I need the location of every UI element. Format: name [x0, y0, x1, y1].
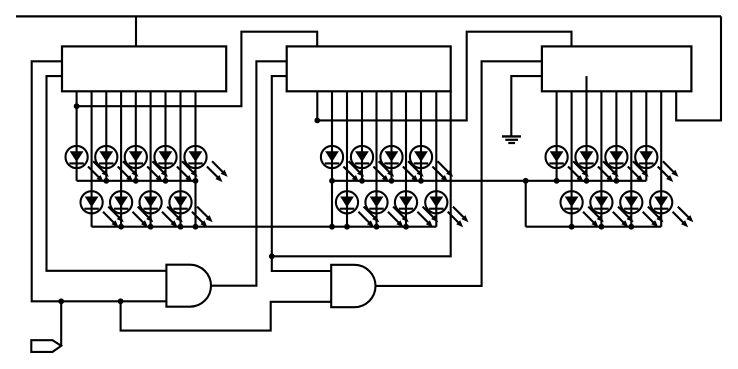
- junction: [163, 178, 169, 184]
- wire U3 pin 2: [571, 91, 573, 226]
- LED D9: [169, 191, 212, 227]
- junction: [193, 178, 199, 184]
- wire cathode rail row2 group3: [526, 226, 662, 228]
- connector tag J1: [31, 340, 61, 352]
- LED D18: [546, 146, 589, 182]
- wire U3 pin 4: [600, 91, 602, 226]
- AND gate U4: [166, 265, 211, 307]
- wire shared input to AND2: [121, 301, 332, 330]
- LED D7: [110, 191, 153, 227]
- wire U1 input B net: [47, 76, 167, 271]
- LED D8: [140, 191, 183, 227]
- LED D21: [635, 146, 678, 182]
- wire U1 pin 6: [150, 91, 152, 226]
- junction: [329, 178, 335, 184]
- junction: [554, 178, 560, 184]
- wire U1 input A net: [32, 61, 167, 301]
- junction: [628, 224, 634, 230]
- wire U1 pin 7: [164, 91, 166, 181]
- wire U2 pin 7: [405, 91, 407, 226]
- junction: [569, 224, 575, 230]
- wire U2 input B net: [272, 76, 331, 271]
- wire U2 pin 1: [316, 91, 318, 120]
- junction: [523, 178, 529, 184]
- junction tag node: [58, 298, 64, 304]
- ground: [502, 136, 521, 143]
- LED D2: [95, 146, 138, 182]
- wire U2 right corner branch: [272, 91, 451, 256]
- power rail top: [16, 15, 721, 17]
- wire cascade U1 to U2: [77, 32, 318, 107]
- junction: [329, 224, 335, 230]
- junction: [374, 224, 380, 230]
- wire VCC to U1 top: [135, 16, 137, 46]
- IC U1: [62, 46, 226, 91]
- AND gate U5: [331, 265, 375, 307]
- LED D15: [365, 191, 408, 227]
- LED D16: [395, 191, 438, 227]
- wire U1 pin 2: [91, 91, 93, 226]
- IC U3: [542, 46, 692, 91]
- wire U2 pin 5: [375, 91, 377, 226]
- wire cascade U2 to U3: [317, 32, 571, 121]
- wire AND2 out to U3 input A: [376, 61, 542, 286]
- junction: [118, 224, 124, 230]
- junction: [344, 224, 350, 230]
- junction: [103, 178, 109, 184]
- wire rail tie 2: [331, 181, 333, 227]
- wire U2 pin 4: [361, 91, 363, 181]
- wire U3 pin 7: [645, 91, 647, 181]
- LED D13: [410, 146, 453, 182]
- junction U1 QH out: [74, 103, 80, 109]
- IC U2: [287, 46, 451, 91]
- LED D3: [125, 146, 168, 182]
- junction: [584, 178, 590, 184]
- LED D5: [184, 146, 227, 182]
- LED D19: [575, 146, 618, 182]
- wire U2 pin 8: [420, 91, 422, 181]
- junction: [178, 224, 184, 230]
- wire U3 pin 1: [556, 91, 558, 181]
- wire AND1 out to U2 input A: [211, 61, 287, 285]
- wire cathode rail row2 group1+2: [92, 226, 437, 228]
- wire U3 input B to ground: [511, 76, 542, 136]
- wire U2 pin 3: [346, 91, 348, 226]
- junction: [614, 178, 620, 184]
- wire tag riser: [60, 301, 62, 346]
- wire U1 pin 8: [179, 91, 181, 226]
- wire U2 pin 6: [390, 91, 392, 181]
- junction: [359, 178, 365, 184]
- LED D24: [620, 191, 663, 227]
- junction: [599, 224, 605, 230]
- LED D25: [650, 191, 693, 227]
- junction node B2: [269, 253, 275, 259]
- wire rail tie 3: [525, 181, 527, 227]
- LED D22: [561, 191, 604, 227]
- wire U1 pin 5: [135, 91, 137, 181]
- LED D20: [605, 146, 648, 182]
- wire U3 pin 6: [630, 91, 632, 226]
- LED D17: [425, 191, 468, 227]
- wire U1 pin 4: [120, 91, 122, 226]
- junction: [389, 178, 395, 184]
- LED D10: [321, 146, 364, 182]
- wire U3 pin 3: [585, 76, 587, 181]
- wire U1 pin 9: [194, 91, 196, 181]
- wire U2 pin 9: [435, 91, 437, 226]
- wire U3 pin 8: [660, 91, 662, 226]
- junction: [148, 224, 154, 230]
- wire VCC right drop to U3: [676, 16, 721, 120]
- LED D12: [380, 146, 423, 182]
- junction U2 QH out: [314, 118, 320, 124]
- junction: [418, 178, 424, 184]
- wire cathode rail row1 group1: [77, 180, 196, 182]
- LED D1: [66, 146, 109, 182]
- wire cathode rail row1 group2+3: [332, 180, 646, 182]
- LED D4: [154, 146, 197, 182]
- LED D11: [351, 146, 394, 182]
- junction: [403, 224, 409, 230]
- wire U3 pin 5: [615, 91, 617, 181]
- junction: [133, 178, 139, 184]
- wire rail tie 1: [194, 181, 196, 227]
- junction: [193, 224, 199, 230]
- LED D14: [336, 191, 379, 227]
- wire U2 pin 2: [331, 91, 333, 181]
- LED D23: [590, 191, 633, 227]
- LED D6: [81, 191, 124, 227]
- junction shared input node: [118, 298, 124, 304]
- wire U1 pin 3: [105, 91, 107, 181]
- wire U1 pin 1: [76, 91, 78, 181]
